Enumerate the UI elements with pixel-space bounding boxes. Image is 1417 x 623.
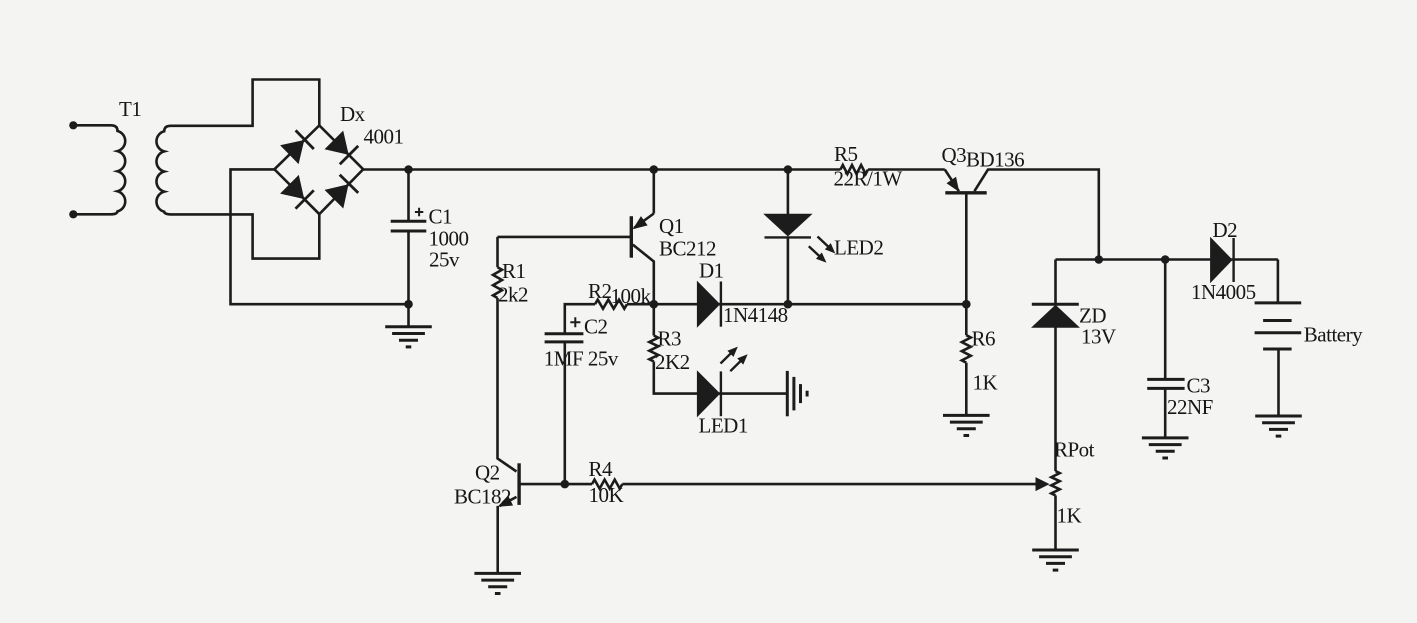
ground (battery) <box>1255 416 1302 436</box>
svg-text:C1: C1 <box>429 204 453 228</box>
bridge diode (left-bottom edge) <box>281 176 314 209</box>
ground (RPot) <box>1032 550 1079 570</box>
wire RPot bottom <box>1054 495 1057 550</box>
LED1 light arrow 2 <box>730 360 741 371</box>
node LED2 top junction <box>784 165 793 174</box>
battery plate 1 (long) <box>1255 301 1302 304</box>
wire C1 bottom lead <box>407 231 410 304</box>
transformer T1 secondary winding <box>156 126 170 215</box>
RPot wiper arrow <box>1036 478 1049 490</box>
wire Q2 base to R4 <box>519 483 592 486</box>
bridge diode (bottom-right edge) <box>326 175 359 208</box>
ground (R6) <box>943 415 990 435</box>
Q3 right lead to output <box>974 170 1098 260</box>
C1 plus sign <box>415 208 423 216</box>
battery plate 4 (short) <box>1263 348 1292 351</box>
ground (LED1, sideways) <box>787 371 807 416</box>
capacitor C1 plates <box>391 220 427 223</box>
Q1 emitter diagonal <box>634 214 654 229</box>
wire battery bottom stem <box>1277 349 1280 416</box>
wire T1 primary bottom lead <box>73 213 111 216</box>
wire main rail bridge to R5 <box>363 168 840 171</box>
LED1 light arrow 1 <box>721 353 732 364</box>
svg-text:13V: 13V <box>1081 325 1116 349</box>
wire secondary top to bridge top corner <box>171 80 320 126</box>
wire bridge left corner down to C1 ground rail <box>231 169 409 304</box>
svg-text:R1: R1 <box>502 259 526 283</box>
wire Q3 collector <box>965 193 968 304</box>
Q2 emitter arrow <box>499 496 512 506</box>
svg-text:4001: 4001 <box>364 125 404 149</box>
svg-text:LED2: LED2 <box>834 236 883 260</box>
node Q3 collector junction <box>962 300 971 309</box>
capacitor C3 plates <box>1147 378 1184 381</box>
node C1 top junction <box>404 165 413 174</box>
node R2-R3-D1 junction <box>650 300 659 309</box>
wire secondary bottom to bridge bottom corner <box>171 214 320 259</box>
node LED2 bottom junction <box>784 300 793 309</box>
svg-text:BC182: BC182 <box>454 485 511 509</box>
ground (Q2) <box>474 573 521 593</box>
wire R3 bottom to LED1 line <box>654 362 787 394</box>
transformer T1 primary winding <box>111 125 125 214</box>
svg-text:1K: 1K <box>1057 504 1082 528</box>
svg-text:BC212: BC212 <box>659 237 716 261</box>
wire R6 top <box>965 304 968 335</box>
resistor R2 100k <box>595 300 627 309</box>
battery plate 2 (short) <box>1263 319 1292 322</box>
wire D1 line <box>654 303 967 306</box>
svg-text:22R/1W: 22R/1W <box>834 167 903 191</box>
bridge diode (top-right edge) <box>326 132 359 165</box>
wire R6 bottom <box>965 363 968 416</box>
wire R4 to RPot wiper <box>622 483 1037 486</box>
svg-text:C2: C2 <box>584 315 608 339</box>
LED2 cathode bar <box>765 236 812 238</box>
svg-text:2K2: 2K2 <box>655 350 690 374</box>
resistor R3 2K2 <box>649 336 658 362</box>
wire ZD top lead <box>1054 260 1057 305</box>
wire R1 bottom to Q2 collector <box>498 298 517 472</box>
transformer T1 primary terminal node (top) <box>69 121 77 129</box>
wire output rail <box>1056 258 1278 261</box>
resistor R5 22R/1W <box>841 165 869 174</box>
svg-text:T1: T1 <box>119 97 141 121</box>
battery plate 3 (long) <box>1255 331 1302 334</box>
wire ZD to RPot <box>1054 327 1057 471</box>
svg-text:R4: R4 <box>589 457 614 481</box>
wire C1 top lead <box>407 170 410 222</box>
wire R2 to node <box>627 303 654 306</box>
wire LED2 bottom lead <box>787 237 790 304</box>
D1 cathode bar <box>720 282 722 327</box>
transformer T1 primary terminal node (bottom) <box>69 210 77 218</box>
wire C1 ground stem <box>407 304 410 327</box>
resistor R1 2k2 <box>493 267 502 298</box>
Q2 emitter diagonal <box>500 497 517 506</box>
wire T1 primary top lead <box>73 124 111 127</box>
resistor R6 1K <box>962 335 971 363</box>
svg-text:1N4005: 1N4005 <box>1191 280 1256 304</box>
wire C2 bottom lead <box>563 342 566 484</box>
node output rail junction <box>1095 255 1104 264</box>
svg-text:R5: R5 <box>834 142 858 166</box>
resistor R4 10K <box>592 480 622 489</box>
bridge diode (left-top edge) <box>281 130 314 163</box>
svg-text:Dx: Dx <box>340 102 366 126</box>
wire R5 to Q3 emitter <box>868 168 945 171</box>
capacitor C2 plates <box>545 332 584 335</box>
svg-text:22NF: 22NF <box>1167 395 1213 419</box>
wire LED2 top lead <box>787 170 790 216</box>
node C3 junction <box>1161 255 1170 264</box>
C2 plus sign <box>570 317 580 327</box>
svg-text:10K: 10K <box>589 483 624 507</box>
wire Q1 emitter stem <box>652 170 655 214</box>
svg-text:Q3: Q3 <box>942 143 967 167</box>
D2 cathode bar <box>1232 238 1234 282</box>
wire C3 bottom lead <box>1164 388 1167 438</box>
zener diode ZD 13V <box>1032 305 1078 327</box>
svg-text:R3: R3 <box>658 327 682 351</box>
wire C3 top lead <box>1164 260 1167 380</box>
svg-text:LED1: LED1 <box>699 414 748 438</box>
Q1 collector diagonal <box>633 245 654 305</box>
svg-text:2k2: 2k2 <box>498 283 528 307</box>
Q1 emitter arrow <box>634 217 647 228</box>
svg-text:R6: R6 <box>972 327 996 351</box>
zener ZD cathode bar <box>1032 303 1079 306</box>
wire C2 top lead <box>565 304 595 333</box>
ground (C3) <box>1142 438 1189 458</box>
wire Q2 emitter stem <box>496 506 499 574</box>
transistor Q1 base bar <box>630 216 633 258</box>
svg-text:1K: 1K <box>973 371 998 395</box>
node C2 bottom junction <box>561 480 570 489</box>
svg-text:Q1: Q1 <box>659 214 684 238</box>
svg-text:RPot: RPot <box>1054 438 1095 462</box>
diode D2 1N4005 <box>1211 238 1232 282</box>
diode D1 1N4148 <box>697 282 719 327</box>
LED LED2 <box>765 214 812 236</box>
bridge rectifier Dx diamond <box>274 125 363 214</box>
ground (C1) <box>385 327 432 347</box>
svg-text:1MF 25v: 1MF 25v <box>544 347 619 371</box>
svg-text:Q2: Q2 <box>475 461 500 485</box>
LED LED1 <box>697 371 719 416</box>
svg-text:R2: R2 <box>588 279 612 303</box>
wire Q1 base <box>498 236 631 239</box>
wire R3 top <box>652 304 655 335</box>
svg-text:100k: 100k <box>611 284 652 308</box>
node C1 ground junction <box>404 300 413 309</box>
node Q1 emitter rail junction <box>650 165 659 174</box>
wire D2 to battery <box>1277 260 1280 303</box>
svg-text:D1: D1 <box>699 259 724 283</box>
svg-text:C3: C3 <box>1187 374 1211 398</box>
LED2 light arrow 1 <box>818 237 829 248</box>
Q3 emitter arrow <box>947 178 958 191</box>
svg-text:1N4148: 1N4148 <box>723 303 788 327</box>
transistor Q2 base bar <box>517 463 520 505</box>
wire R1 top <box>496 237 499 267</box>
Q3 emitter diagonal <box>945 170 959 192</box>
svg-text:D2: D2 <box>1213 218 1238 242</box>
svg-text:BD136: BD136 <box>966 148 1024 172</box>
svg-text:Battery: Battery <box>1304 323 1363 347</box>
potentiometer RPot 1K <box>1051 471 1059 495</box>
svg-text:25v: 25v <box>429 247 460 271</box>
LED2 light arrow 2 <box>809 246 820 257</box>
transistor Q3 base bar <box>945 191 986 194</box>
LED1 cathode bar <box>720 371 722 416</box>
